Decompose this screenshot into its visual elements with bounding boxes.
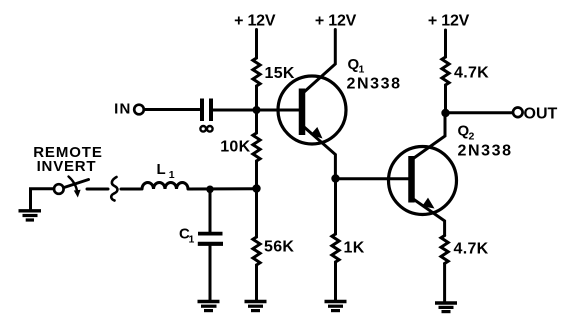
inductor L1 [142, 183, 188, 190]
transistor Q2 base bar [408, 156, 415, 203]
resistor R 4.7K lower [441, 236, 448, 264]
wire ground corner to switch [31, 189, 54, 210]
label C1 [179, 226, 195, 246]
wire 15K to input node [255, 86, 258, 110]
resistor R 1K [332, 234, 339, 262]
svg-text:2N338: 2N338 [347, 76, 402, 93]
svg-text:OUT: OUT [524, 106, 558, 123]
svg-text:1: 1 [169, 169, 175, 181]
svg-text:4.7K: 4.7K [454, 65, 489, 82]
wire capacitor to Q1 base [213, 109, 300, 112]
wire 10K to node B [255, 161, 258, 189]
wire 4.7K lower to ground [443, 264, 446, 303]
wire node to C1 [209, 189, 212, 231]
svg-text:1: 1 [359, 64, 365, 76]
svg-text:INVERT: INVERT [37, 158, 97, 175]
resistor R 56K [253, 237, 260, 265]
svg-text:2: 2 [469, 131, 475, 143]
transistor Q2 emitter arrow [422, 198, 434, 209]
ground under 4.7K lower [435, 303, 457, 312]
label Q2 [458, 123, 475, 143]
svg-text:56K: 56K [264, 239, 294, 256]
terminal OUT [513, 108, 523, 118]
wire break to L1 [121, 188, 141, 191]
transistor Q1 collector [304, 30, 336, 93]
label Q1 [348, 56, 365, 76]
transistor Q2 collector [413, 113, 446, 159]
wire C1 to ground [209, 244, 212, 300]
capacitor C1 bottom plate [198, 242, 223, 246]
wire break squiggle [111, 177, 117, 201]
switch S1 contact [54, 184, 64, 194]
resistor R 15K [253, 58, 260, 86]
svg-text:2N338: 2N338 [458, 143, 513, 160]
wire switch to break [87, 188, 108, 191]
ground at remote switch [19, 211, 42, 220]
svg-text:+ 12V: + 12V [315, 13, 357, 30]
wire IN to coupling capacitor [145, 108, 200, 111]
resistor R 4.7K upper [442, 57, 449, 85]
wire emitter node to Q2 base [336, 177, 410, 180]
ground under C1 [198, 302, 220, 311]
terminal IN [134, 105, 144, 115]
wire +12V to 4.7K [444, 30, 447, 57]
wire L1 to node B [189, 187, 257, 190]
ground under 1K [325, 302, 347, 311]
transistor Q1 emitter arrow [310, 127, 322, 139]
svg-text:L: L [157, 161, 166, 178]
svg-text:4.7K: 4.7K [454, 241, 489, 258]
wire input node to 10K [255, 110, 258, 133]
wire 56K to ground [255, 265, 258, 300]
switch S1 blade [64, 180, 89, 188]
wire +12V to 15K [255, 30, 258, 59]
capacitor C-infinity right plate [209, 99, 213, 122]
wire 1K to ground [334, 262, 337, 300]
transistor Q1 emitter [304, 127, 336, 177]
svg-text:15K: 15K [265, 65, 295, 82]
switch S1 actuator arrow [69, 177, 78, 193]
transistor Q2 emitter [413, 199, 445, 236]
svg-text:+ 12V: + 12V [428, 13, 470, 30]
wire out node to OUT terminal [446, 111, 513, 114]
transistor Q2 body [389, 147, 457, 215]
node input junction [253, 106, 261, 114]
wire 1K stem [334, 179, 337, 235]
ground under 56K [245, 302, 267, 311]
capacitor C1 top plate [198, 232, 223, 236]
node L1/C1 junction [206, 186, 214, 194]
wire 4.7K to out node [444, 85, 447, 113]
svg-text:1: 1 [189, 234, 195, 246]
transistor Q1 body [278, 76, 346, 144]
svg-text:+ 12V: + 12V [234, 13, 276, 30]
capacitor C-infinity left plate [200, 99, 204, 122]
node B junction [252, 184, 260, 192]
node Q1 emitter junction [331, 174, 339, 182]
label L1 [157, 161, 175, 181]
wire 56K stem [255, 189, 258, 238]
svg-text:IN: IN [114, 101, 131, 118]
label infinity [200, 126, 212, 132]
svg-text:10K: 10K [220, 139, 250, 156]
svg-text:1K: 1K [344, 240, 365, 257]
node out junction [441, 109, 449, 117]
transistor Q1 base bar [299, 89, 306, 136]
resistor R 10K [253, 133, 260, 161]
